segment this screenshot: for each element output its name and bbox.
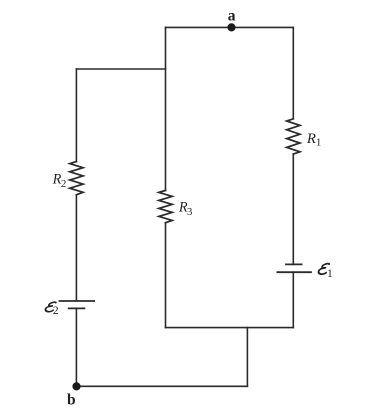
- wire right branch lower: [292, 272, 294, 327]
- svg-text:3: 3: [187, 206, 193, 218]
- svg-text:1: 1: [327, 268, 333, 280]
- wire upper-left horizontal: [76, 68, 165, 70]
- battery E1: [277, 264, 311, 272]
- svg-text:R: R: [306, 131, 316, 147]
- svg-text:2: 2: [53, 305, 59, 317]
- wire right branch middle: [292, 154, 294, 264]
- label E1 script-E glyph: [318, 264, 329, 275]
- wire vertical drop to bottom: [246, 328, 248, 387]
- battery E2: [60, 301, 95, 308]
- label E2 script-E glyph: [45, 302, 56, 312]
- wire bottom of middle loop: [166, 327, 294, 329]
- svg-text:a: a: [228, 7, 236, 24]
- wire middle branch lower: [165, 223, 167, 328]
- wire middle branch upper: [165, 27, 167, 190]
- resistor R3: [159, 190, 172, 222]
- svg-text:1: 1: [316, 136, 322, 148]
- resistor R2: [70, 162, 83, 195]
- resistor R1: [287, 119, 300, 154]
- svg-text:2: 2: [61, 178, 67, 190]
- wire left branch lower: [75, 308, 77, 386]
- node a: [227, 23, 235, 31]
- wire right branch upper: [292, 27, 294, 118]
- node b: [72, 382, 80, 390]
- wire left branch middle: [75, 195, 77, 301]
- wire top (a to right corner): [166, 26, 294, 28]
- wire bottom (b to drop): [76, 385, 247, 387]
- wire left branch upper: [75, 69, 77, 162]
- svg-text:b: b: [67, 391, 76, 408]
